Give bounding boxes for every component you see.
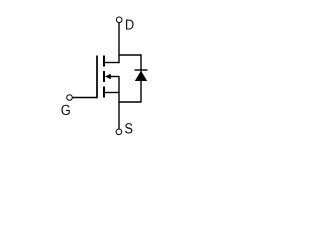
diode D1 anode triangle: [135, 71, 147, 81]
transistor Q1 body arrow head: [105, 74, 111, 80]
wire drain contact: [104, 62, 120, 64]
wire drain vertical: [118, 23, 120, 63]
wire diode branch vertical: [140, 55, 142, 103]
terminal circle S: [116, 129, 122, 135]
transistor Q1 body arrow shaft: [108, 76, 120, 78]
wire source contact: [104, 92, 120, 94]
transistor Q1 middle channel bar: [103, 71, 105, 82]
label D: [126, 19, 134, 29]
terminal circle D: [116, 17, 122, 23]
diode D1 cathode bar: [135, 69, 148, 71]
terminal circle G: [67, 95, 73, 101]
label G: [61, 105, 69, 115]
wire body to source: [118, 77, 120, 93]
wire source to diode branch: [119, 101, 142, 103]
transistor Q1 gate plate: [96, 56, 98, 99]
wire source vertical: [118, 92, 120, 129]
wire drain to diode branch: [119, 54, 142, 56]
transistor Q1 top channel bar: [103, 56, 105, 67]
label S: [125, 123, 132, 133]
transistor Q1 bottom channel bar: [103, 87, 105, 98]
wire gate: [73, 97, 98, 99]
